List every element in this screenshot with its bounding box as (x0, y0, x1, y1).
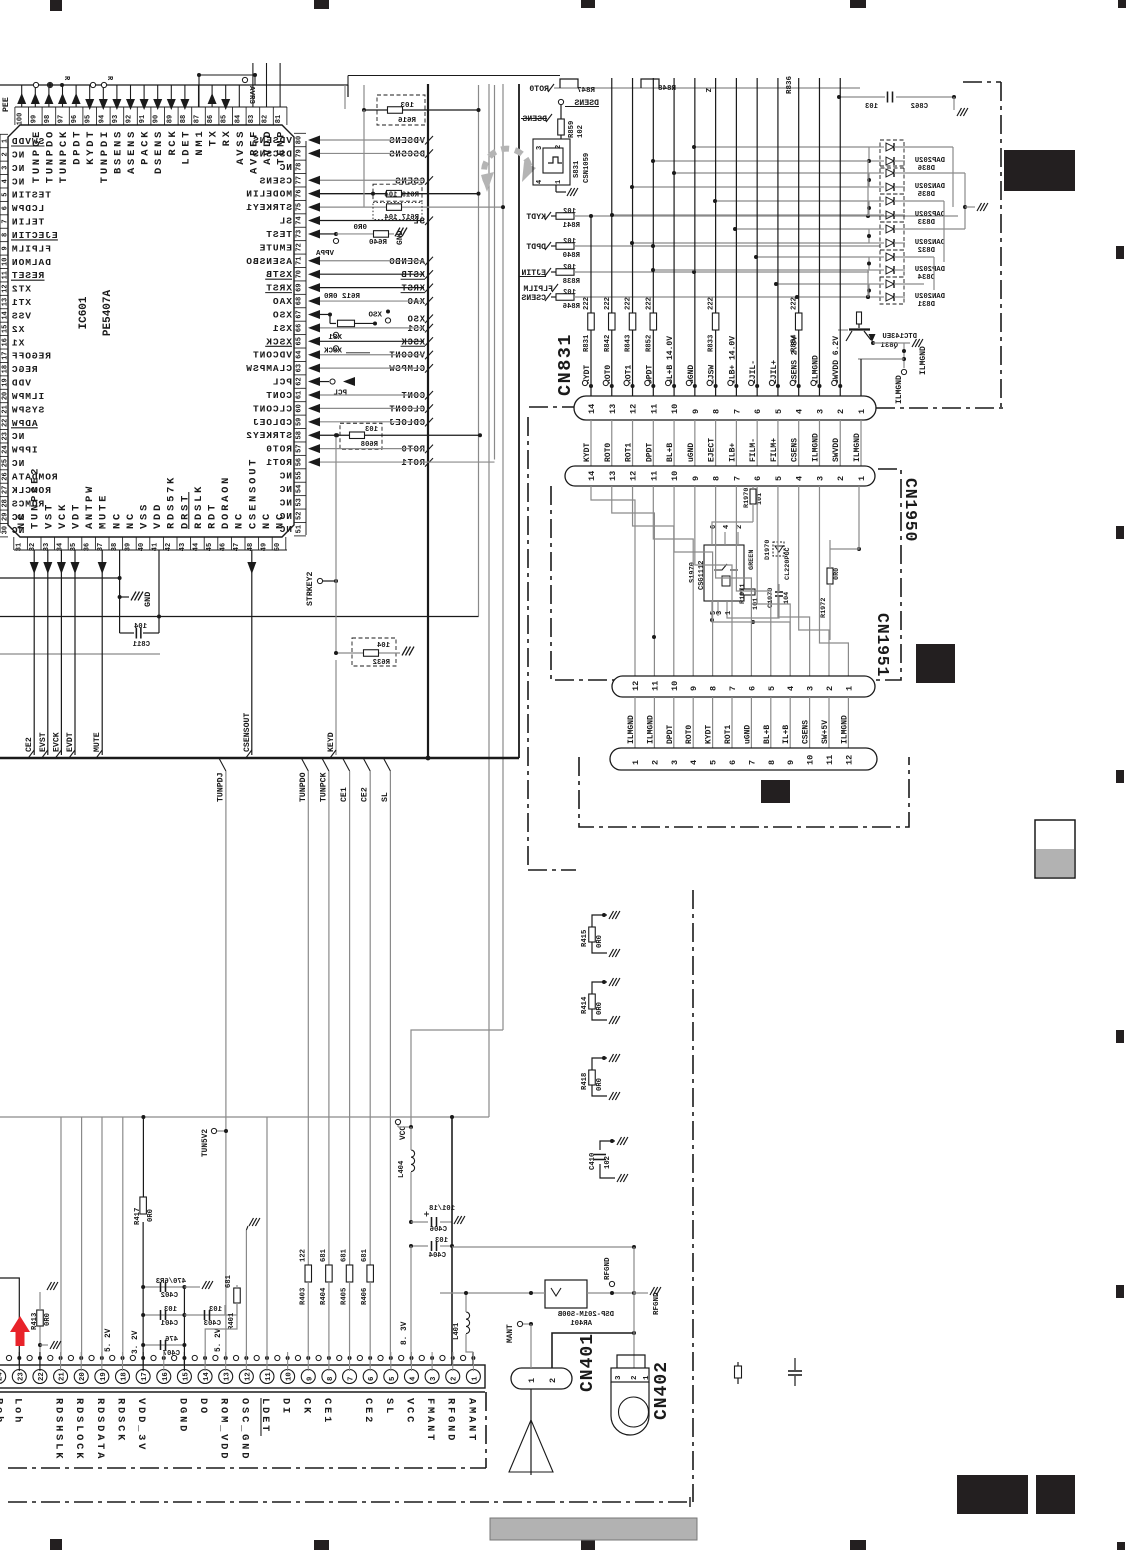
black patch top right (1004, 150, 1075, 191)
svg-text:19: 19 (2, 378, 10, 386)
svg-text:FLPILM: FLPILM (523, 285, 553, 294)
svg-text:ROT1: ROT1 (724, 725, 733, 744)
svg-text:ROT0: ROT0 (265, 444, 292, 455)
svg-text:681: 681 (361, 1248, 369, 1262)
svg-text:22: 22 (38, 1372, 46, 1381)
svg-text:20: 20 (2, 392, 10, 400)
svg-text:DALMON: DALMON (11, 257, 51, 268)
svg-text:R403: R403 (299, 1288, 307, 1305)
filter AR401 DSP-201M-S00B (545, 1280, 587, 1308)
svg-text:26: 26 (2, 472, 10, 480)
svg-text:R640: R640 (368, 239, 387, 247)
resistor R859 102 (560, 105, 562, 119)
svg-text:88: 88 (180, 115, 188, 123)
IC601 pin 61 wire with arrow (308, 390, 320, 399)
resistor R406 681 (367, 1265, 374, 1282)
section border dash-dot bottom rail (8, 1501, 690, 1503)
svg-text:AVREF: AVREF (248, 129, 260, 174)
svg-text:3: 3 (536, 146, 544, 150)
svg-text:9: 9 (306, 1377, 314, 1381)
wire into AR401 (440, 1292, 545, 1294)
svg-text:7: 7 (732, 476, 742, 481)
svg-text:5: 5 (774, 409, 784, 414)
svg-text:NC: NC (16, 511, 28, 529)
CN401 pin 24 (0, 1370, 6, 1384)
capacitor C862 103 (839, 96, 885, 98)
net XSO terminal (385, 318, 390, 323)
wire CN1950 pin 5 to CN1951 pin 3 (778, 486, 810, 676)
svg-text:ASENSBO: ASENSBO (245, 256, 292, 267)
svg-text:38: 38 (111, 543, 119, 551)
svg-text:TEST: TEST (265, 229, 292, 240)
resistor R404 681 (326, 1265, 333, 1282)
net ILMGND terminal (901, 369, 906, 374)
svg-text:681: 681 (225, 1274, 233, 1288)
svg-text:C401: C401 (160, 1320, 178, 1328)
diode block right-side wires (905, 146, 953, 148)
svg-text:36: 36 (84, 543, 92, 551)
svg-text:51: 51 (296, 525, 304, 533)
wire top rail upper (348, 75, 560, 77)
svg-text:VDD_3V: VDD_3V (135, 1398, 147, 1452)
wire KYDT below CN1951 (712, 697, 714, 748)
ground at R640 (395, 228, 400, 237)
svg-text:SL: SL (279, 216, 292, 227)
registration mark right 3 (1116, 770, 1124, 783)
svg-text:2: 2 (736, 525, 744, 529)
wire net EVDT down from IC601 pin 35 (74, 550, 76, 755)
svg-text:IL+B: IL+B (782, 725, 791, 744)
svg-text:CSENS: CSENS (395, 176, 425, 186)
CN401 pin 22 (33, 1370, 47, 1384)
svg-text:78: 78 (296, 163, 304, 171)
svg-text:DPDT: DPDT (526, 243, 546, 252)
wire VDD_3V lower (142, 1222, 144, 1371)
registration mark bottom 2 (314, 1540, 329, 1550)
wire net rail y578 (0, 577, 120, 579)
CN401 pin 7 (343, 1370, 357, 1384)
section border dash-dot lower box (579, 757, 909, 827)
wire DO elbow (205, 1303, 237, 1371)
svg-text:85: 85 (221, 115, 229, 123)
capacitor C404 103 (411, 1245, 428, 1247)
section border dash-dot left (527, 417, 529, 870)
resistor R608 103 (dashed box) (340, 423, 382, 449)
svg-text:CDLOEJ: CDLOEJ (252, 417, 292, 428)
svg-text:21: 21 (2, 405, 10, 413)
ground GND below IC601 (118, 595, 122, 599)
svg-text:ILMGND: ILMGND (811, 433, 820, 462)
svg-text:MUTE: MUTE (93, 732, 102, 752)
svg-text:RFGND: RFGND (604, 1257, 612, 1280)
diode pair D833 DAP202U (880, 194, 904, 222)
IC601 pin 67 XSO wire (308, 310, 320, 319)
wire CN831 pin 4 column (798, 78, 800, 396)
svg-text:VSS: VSS (139, 502, 151, 529)
wire net rail y616 (0, 616, 479, 618)
CN401 pin 3 (425, 1370, 439, 1384)
CN401 pin 10 (281, 1370, 295, 1384)
svg-text:AVSS: AVSS (235, 129, 247, 165)
wire CSENS CN831-CN1950 (798, 420, 800, 466)
svg-text:VPPA: VPPA (315, 250, 334, 258)
svg-text:6: 6 (753, 476, 763, 481)
svg-text:222: 222 (604, 297, 612, 310)
svg-text:R846: R846 (563, 303, 580, 311)
svg-text:3: 3 (430, 1376, 438, 1381)
IC601 pin 92 arrow down (130, 85, 132, 107)
wire CN831 pin 1 column (860, 359, 862, 396)
svg-text:1: 1 (857, 409, 867, 414)
svg-text:4: 4 (723, 525, 731, 529)
CN401 pin 23 (12, 1370, 26, 1384)
resistor R401 681 (224, 1305, 226, 1315)
svg-text:C811: C811 (132, 641, 150, 649)
net PCL terminal (330, 379, 335, 384)
svg-text:AVDD: AVDD (262, 129, 274, 165)
svg-text:6: 6 (368, 1377, 376, 1381)
ground at R632 (402, 647, 407, 656)
svg-text:C402: C402 (161, 1292, 178, 1300)
svg-text:C410: C410 (589, 1153, 597, 1170)
svg-text:3. 2V: 3. 2V (132, 1330, 140, 1354)
svg-text:41: 41 (152, 543, 160, 551)
resistor R414 0R0 (592, 982, 607, 994)
svg-text:102: 102 (604, 1156, 612, 1169)
resistor R843 222 (629, 313, 636, 330)
CN401 pin 15 (177, 1370, 191, 1384)
svg-text:DPDT: DPDT (666, 725, 675, 744)
svg-text:R1970: R1970 (743, 488, 751, 508)
svg-text:ASENS: ASENS (126, 129, 138, 174)
svg-text:Z: Z (703, 88, 711, 93)
wire CN831 pin 10 column (673, 78, 675, 396)
svg-text:16: 16 (162, 1372, 170, 1381)
svg-text:CE1: CE1 (340, 787, 349, 802)
svg-text:SL: SL (413, 217, 425, 227)
IC601 pin 79 wire with arrow (308, 149, 320, 158)
remote control switch S831 CSN1059 (560, 135, 562, 139)
svg-text:103: 103 (209, 1306, 222, 1314)
wire RDS lines vertical (60, 1117, 62, 1358)
svg-text:1: 1 (2, 139, 10, 143)
capacitor (unref) symbol (794, 1358, 796, 1370)
CN401 pin 1 (466, 1370, 480, 1384)
svg-text:RX: RX (221, 128, 233, 146)
svg-text:DI: DI (280, 1398, 292, 1416)
svg-text:RDSDATA: RDSDATA (94, 1398, 106, 1461)
connector antenna stadium (511, 1368, 572, 1389)
red pointer arrow (10, 1316, 30, 1346)
svg-text:TUNPDJ: TUNPDJ (216, 772, 225, 802)
svg-text:77: 77 (296, 176, 304, 184)
CN401 pin terminals row (6, 1355, 11, 1360)
wire SW+5V below CN1951 (828, 697, 830, 748)
resistor R848 (jumper bracket) (641, 79, 659, 88)
svg-text:GND: GND (396, 230, 405, 245)
svg-text:47: 47 (233, 543, 241, 551)
svg-text:RDSLOCK: RDSLOCK (73, 1398, 85, 1461)
svg-text:R417: R417 (134, 1208, 142, 1225)
svg-text:49: 49 (260, 543, 268, 551)
svg-text:OSC_GND: OSC_GND (238, 1398, 250, 1461)
svg-text:NC: NC (261, 511, 273, 529)
wire VDD pin41 down (158, 550, 160, 617)
resistor R840 102 (551, 245, 556, 247)
svg-text:R843: R843 (625, 335, 633, 352)
svg-text:ILMGND: ILMGND (853, 433, 862, 462)
ground RFGND (634, 1292, 648, 1294)
svg-text:ROM_VDD: ROM_VDD (218, 1398, 230, 1461)
svg-text:REGC: REGC (11, 364, 38, 375)
wire KEYD down (335, 660, 337, 755)
svg-text:STRKEY2: STRKEY2 (245, 430, 292, 441)
wire EJECT CN831-CN1950 (715, 420, 717, 466)
svg-text:SL: SL (381, 792, 390, 802)
svg-text:RDSHSLK: RDSHSLK (53, 1398, 65, 1461)
wire out of AR401 (587, 1292, 634, 1294)
svg-text:DSCSNS: DSCSNS (389, 149, 425, 159)
svg-text:TELIN: TELIN (11, 217, 44, 228)
svg-text:FMANT: FMANT (424, 1398, 436, 1443)
svg-text:ILMGND: ILMGND (627, 715, 636, 744)
wire CN1950 pin 11 to CN1951 pin 9 (653, 486, 693, 676)
svg-text:72: 72 (296, 243, 304, 251)
IC601 pin 68 wire with arrow (308, 297, 320, 306)
svg-text:DSENS: DSENS (522, 115, 547, 124)
wire CN831 pin 6 column (756, 78, 758, 396)
svg-text:103: 103 (365, 426, 378, 434)
registration mark bottom 5 (1117, 1542, 1125, 1550)
wire ILMGND below CN1951 (634, 697, 636, 748)
svg-text:71: 71 (296, 257, 304, 265)
svg-text:8: 8 (709, 686, 719, 691)
wire ILB+ CN831-CN1950 (735, 420, 737, 466)
resistor R632 104 (dashed box) (352, 638, 396, 666)
svg-text:DAN202U: DAN202U (915, 239, 945, 247)
svg-text:103: 103 (435, 1237, 448, 1245)
svg-text:103: 103 (400, 102, 414, 110)
junction dot CN1951 feed (652, 635, 656, 639)
resistor R842 222 (609, 313, 616, 330)
svg-text:2: 2 (631, 1375, 639, 1380)
wire CN1950 pin 13 to CN1951 pin 11 (612, 486, 655, 676)
resistor R1971 101 (741, 589, 755, 595)
wire FILM- CN831-CN1950 (756, 420, 758, 466)
resistor R847 (jumper bracket) (560, 79, 578, 88)
svg-text:R842: R842 (604, 335, 612, 352)
svg-text:R401: R401 (228, 1312, 236, 1330)
wire DGND lower (183, 1287, 185, 1371)
wire CN831 pin 12 column (632, 78, 634, 396)
section border dash-dot right (1000, 82, 1002, 408)
IC601 pin 89 arrow down (170, 85, 172, 107)
registration mark top 2 (314, 0, 329, 9)
svg-text:87: 87 (194, 115, 202, 123)
wire net CE2 down from IC601 pin 32 (33, 550, 35, 755)
svg-text:VDCONT: VDCONT (389, 351, 425, 361)
bus wire x494 (494, 85, 496, 460)
svg-text:R415: R415 (581, 930, 589, 947)
svg-text:91: 91 (139, 115, 147, 123)
registration mark right 1 (1116, 246, 1124, 259)
svg-text:102: 102 (563, 238, 576, 246)
svg-text:18: 18 (121, 1372, 129, 1381)
ground below S831 (555, 185, 557, 192)
svg-text:5: 5 (767, 686, 777, 691)
wire SWVDD CN831-CN1950 (839, 420, 841, 466)
black patch near CN1951 (916, 644, 955, 683)
wire CN831 pin 2 column (839, 78, 841, 396)
wire DPDT CN831-CN1950 (652, 420, 654, 466)
svg-text:BL+B 14.0V: BL+B 14.0V (666, 336, 675, 384)
svg-text:92: 92 (126, 115, 134, 123)
svg-text:6: 6 (2, 206, 10, 210)
IC U601 outline (IC601 PE5407A) (8, 125, 294, 537)
svg-text:NC: NC (11, 458, 24, 469)
svg-text:ILB+: ILB+ (728, 443, 737, 462)
svg-text:2: 2 (650, 760, 660, 765)
svg-text:80: 80 (296, 136, 304, 144)
IC601 left pin-number strip (pins 1-30) (0, 134, 1, 533)
svg-text:13: 13 (2, 298, 10, 306)
svg-text:2: 2 (2, 152, 10, 156)
svg-text:6: 6 (753, 409, 763, 414)
svg-text:3: 3 (815, 476, 825, 481)
svg-text:0R0: 0R0 (833, 568, 841, 580)
wire CN1950 pin 6 to CN1951 pin 4 (757, 486, 790, 676)
IC601 pin 90 arrow down (157, 85, 159, 107)
svg-text:X2: X2 (11, 324, 24, 335)
svg-text:29: 29 (2, 513, 10, 521)
svg-text:KYDT: KYDT (583, 443, 592, 462)
capacitor C410 102 (600, 1141, 615, 1150)
IC601 bottom pin-number strip (pins 31-50) (14, 549, 287, 551)
svg-text:222: 222 (625, 297, 633, 310)
svg-text:44: 44 (192, 543, 200, 551)
svg-text:102: 102 (577, 125, 585, 138)
svg-text:7: 7 (747, 760, 757, 765)
svg-text:TEMP: TEMP (276, 129, 288, 165)
svg-text:8: 8 (767, 760, 777, 765)
svg-text:81: 81 (275, 115, 283, 123)
resistor R841 102 (551, 215, 556, 217)
capacitor C811 104 (119, 578, 121, 633)
svg-text:D1970: D1970 (764, 540, 772, 560)
svg-text:R840: R840 (563, 252, 580, 260)
svg-text:0R0: 0R0 (44, 1313, 52, 1326)
svg-text:RDSCK: RDSCK (115, 1398, 127, 1443)
wire CN1950 pin 14 to CN1951 pin 12 (591, 486, 635, 676)
net DSENS terminal (558, 99, 563, 104)
svg-text:KYDT: KYDT (85, 129, 97, 165)
svg-text:104: 104 (133, 623, 147, 631)
wire CN831 pin 13 column (611, 78, 613, 396)
svg-text:0R0: 0R0 (147, 1209, 155, 1222)
svg-text:222: 222 (583, 297, 591, 310)
svg-text:12: 12 (844, 755, 854, 765)
bus elbow x503 to VCC column (411, 1030, 503, 1127)
resistor R640 0R0 (334, 232, 338, 236)
svg-text:VDT: VDT (71, 502, 83, 529)
svg-text:69: 69 (296, 283, 304, 291)
svg-text:ROT1: ROT1 (401, 458, 425, 468)
svg-text:1: 1 (527, 1378, 537, 1383)
wire uGND below CN1951 (750, 697, 752, 748)
svg-text:45: 45 (206, 543, 214, 551)
svg-text:18: 18 (2, 365, 10, 373)
bus wire x364 (363, 85, 365, 111)
svg-text:470/6R3: 470/6R3 (156, 1278, 186, 1286)
svg-text:8. 3V: 8. 3V (401, 1321, 409, 1345)
resistor (unref) symbol (737, 1362, 739, 1366)
resistor on XSO line (328, 312, 332, 316)
junction dots key rows (589, 214, 593, 218)
capacitor C401 103 (143, 1314, 184, 1316)
svg-text:64: 64 (296, 351, 304, 359)
svg-text:uGND: uGND (687, 443, 696, 462)
svg-text:2: 2 (836, 409, 846, 414)
CN402 pin bracket (617, 1355, 645, 1368)
wire ILMGND below CN1951 (847, 697, 849, 748)
svg-text:11: 11 (650, 681, 660, 691)
svg-text:1: 1 (643, 1375, 651, 1380)
svg-text:48: 48 (247, 543, 255, 551)
svg-text:TX: TX (208, 128, 220, 146)
diode pair D835 DAN202U (880, 166, 904, 194)
svg-text:89: 89 (166, 115, 174, 123)
svg-text:VCK: VCK (57, 502, 69, 529)
feed rail y1117 (0, 1116, 489, 1118)
section border dash-dot left of CN831 (529, 406, 574, 408)
connector CN401 body (0, 1365, 485, 1388)
bus wire x478 (478, 85, 480, 617)
ground above R413 (47, 1282, 52, 1290)
svg-text:TUNPCK: TUNPCK (58, 129, 70, 183)
svg-text:SWVDD: SWVDD (832, 438, 841, 462)
svg-text:4: 4 (409, 1376, 417, 1381)
wire CN1950 pin 7 to CN1951 pin 5 (736, 486, 770, 676)
IC601 pin 86 arrow up (211, 85, 213, 107)
wire TUNPCK vertical (328, 771, 330, 1265)
IC601 pin 96 arrow up (75, 85, 77, 107)
svg-text:10: 10 (670, 681, 680, 691)
svg-text:KYDT: KYDT (705, 725, 714, 744)
wire CN831 pin 11 column (652, 78, 654, 396)
svg-text:55: 55 (296, 471, 304, 479)
svg-text:14: 14 (587, 471, 597, 481)
IC601 pin 62 PCL wire (308, 377, 320, 386)
svg-text:17: 17 (141, 1372, 149, 1381)
IC601 pin 85 arrow down (225, 85, 227, 107)
svg-text:31: 31 (16, 543, 24, 551)
junction dots top rail (48, 83, 52, 87)
svg-text:5. 2V: 5. 2V (105, 1328, 113, 1352)
svg-text:NC: NC (11, 431, 24, 442)
IC601 pin 87 wire stub (198, 85, 200, 107)
svg-text:7: 7 (2, 219, 10, 223)
IC601 pin 91 arrow down (143, 85, 145, 107)
svg-text:12: 12 (631, 681, 641, 691)
IC601 pin 75 STRKEY1 wire with R617 (308, 203, 320, 212)
bus wire x503 (502, 84, 504, 1030)
svg-text:XAO: XAO (407, 297, 425, 307)
svg-text:DSP-201M-S00B: DSP-201M-S00B (557, 1311, 614, 1319)
svg-text:50: 50 (274, 543, 282, 551)
diode pair D832 DAN202U (880, 222, 904, 250)
svg-text:CN1950: CN1950 (901, 478, 920, 542)
svg-text:102: 102 (563, 264, 576, 272)
